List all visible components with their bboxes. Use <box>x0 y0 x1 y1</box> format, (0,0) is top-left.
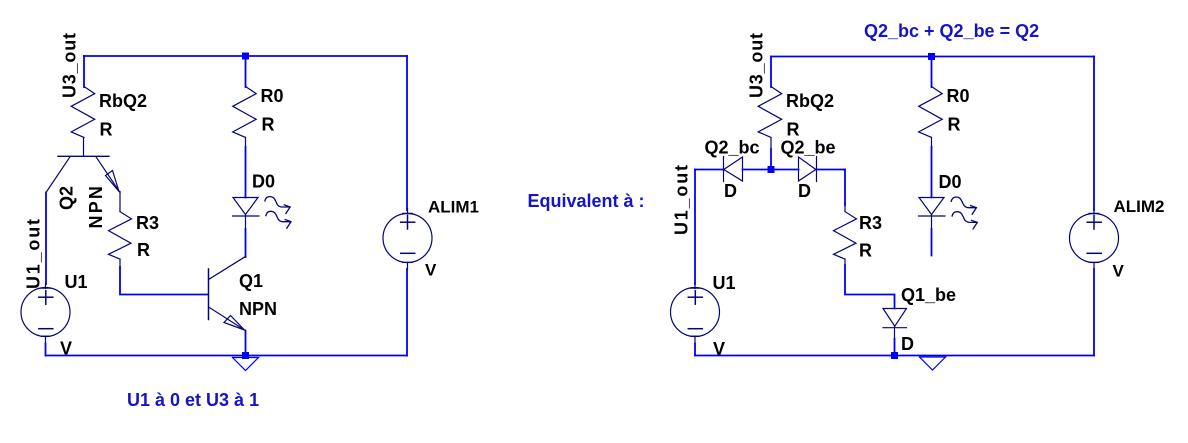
wire RbQ2 to diode junction <box>770 149 772 171</box>
svg-text:ALIM1: ALIM1 <box>428 198 479 217</box>
wire R0 top lead right <box>931 57 933 88</box>
wire Q2_bc to Q2_be through junction <box>743 169 799 171</box>
source ALIM2 <box>1070 214 1119 263</box>
wire Q2_be to R3 right <box>844 170 845 206</box>
wire ALIM2 top <box>1093 57 1095 211</box>
node junction bottom right-circuit <box>891 352 898 359</box>
svg-text:R: R <box>859 241 872 261</box>
diode D0 right (LED) <box>919 198 944 215</box>
wire ALIM2 bottom <box>1093 269 1095 356</box>
wire U1 bottom <box>45 344 47 356</box>
svg-text:R: R <box>787 120 800 140</box>
diode Q1_be <box>883 309 907 327</box>
wire top horizontal <box>84 55 407 57</box>
wire ALIM1 bottom <box>406 269 408 356</box>
wire Q2_be cathode to R3 corner <box>816 169 845 171</box>
source ALIM1 <box>383 214 432 263</box>
svg-text:RbQ2: RbQ2 <box>99 91 147 111</box>
node junction top right-circuit <box>928 53 935 60</box>
resistor RbQ2 right <box>758 87 782 138</box>
svg-text:R0: R0 <box>261 86 284 106</box>
wire R3 bottom to Q1 base <box>120 267 208 295</box>
svg-text:D: D <box>724 181 737 201</box>
svg-text:V: V <box>1113 262 1125 281</box>
source U1 right <box>671 288 720 337</box>
ground left <box>233 358 259 371</box>
svg-text:Q2_be: Q2_be <box>781 138 836 158</box>
wire U1 right bottom <box>694 344 696 356</box>
LED arrows right <box>951 197 977 229</box>
LED arrows left <box>265 197 291 229</box>
diode Q2_bc <box>723 157 725 182</box>
svg-text:R: R <box>948 115 961 135</box>
svg-text:U1: U1 <box>65 272 88 292</box>
svg-text:NPN: NPN <box>239 299 277 319</box>
resistor R0 left <box>233 87 257 138</box>
wire D0 to Q1 collector <box>245 229 247 257</box>
svg-text:ALIM2: ALIM2 <box>1114 197 1165 216</box>
svg-text:R: R <box>262 115 275 135</box>
svg-text:D: D <box>901 334 914 354</box>
svg-text:Q2_bc: Q2_bc <box>705 138 760 158</box>
wire top horizontal right-circuit <box>771 56 1094 58</box>
svg-text:D0: D0 <box>939 172 962 192</box>
svg-text:R: R <box>137 240 150 260</box>
transistor Q1 <box>208 269 210 320</box>
svg-text:R3: R3 <box>859 213 882 233</box>
resistor R3 <box>119 192 121 212</box>
wire D0 open stub right <box>931 229 933 256</box>
svg-text:R0: R0 <box>947 86 970 106</box>
ground right <box>920 357 946 370</box>
node junction bottom left-circuit <box>242 352 249 359</box>
source U1 left <box>21 288 70 337</box>
svg-text:U1 à 0 et U3 à 1: U1 à 0 et U3 à 1 <box>127 390 259 410</box>
svg-text:U3_out: U3_out <box>747 32 767 98</box>
resistor R0 right <box>919 87 943 138</box>
wire U3_out vertical <box>83 56 85 87</box>
wire bottom horizontal right-circuit <box>695 355 1094 357</box>
wire U1_out to Q2_bc anode <box>695 169 724 171</box>
svg-text:RbQ2: RbQ2 <box>786 91 834 111</box>
wire R0 top lead <box>245 56 247 87</box>
wire Q1_be to bottom <box>894 339 896 356</box>
node junction top left-circuit <box>242 53 249 60</box>
wire R0 to D0 right <box>931 147 933 198</box>
svg-text:U1_out: U1_out <box>24 217 44 289</box>
diode Q2_be <box>816 157 818 182</box>
wire U1_out vertical <box>45 193 47 285</box>
svg-text:Q2: Q2 <box>57 186 77 210</box>
svg-text:Equivalent à :: Equivalent à : <box>528 191 645 211</box>
wire U1_out right vertical <box>694 170 696 285</box>
wire Q1 emitter to bottom <box>245 331 247 356</box>
svg-text:Q1: Q1 <box>239 271 263 291</box>
svg-text:Q2_bc + Q2_be = Q2: Q2_bc + Q2_be = Q2 <box>864 21 1039 41</box>
wire bottom horizontal left-circuit <box>46 355 408 357</box>
svg-text:R3: R3 <box>136 213 159 233</box>
svg-text:D: D <box>798 181 811 201</box>
svg-text:U1: U1 <box>713 273 736 293</box>
diode D0 left (LED) <box>233 198 258 215</box>
svg-text:R: R <box>100 120 113 140</box>
wire R3 to Q1_be <box>845 265 895 309</box>
svg-text:U1_out: U1_out <box>672 163 692 235</box>
node junction diode row <box>768 166 775 173</box>
svg-text:NPN: NPN <box>86 184 106 229</box>
transistor Q2 <box>58 155 109 157</box>
svg-text:U3_out: U3_out <box>60 32 80 98</box>
wire R0 to D0 <box>245 147 247 198</box>
svg-text:V: V <box>425 261 437 280</box>
wire ALIM1 top <box>406 56 408 210</box>
resistor R3 right <box>844 204 846 212</box>
resistor RbQ2 <box>71 87 95 138</box>
svg-text:D0: D0 <box>252 172 275 192</box>
svg-text:Q1_be: Q1_be <box>901 285 956 305</box>
wire U3_out vertical right <box>770 57 772 88</box>
